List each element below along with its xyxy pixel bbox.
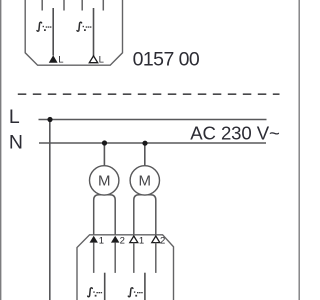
motor M1 [90, 166, 119, 195]
svg-text:1: 1 [99, 236, 104, 247]
terminal arrow-up 2 filled on U2 [111, 236, 119, 243]
svg-text:M: M [98, 172, 111, 189]
svg-text:AC 230 V~: AC 230 V~ [190, 123, 280, 144]
wire stub N to motor M2 [144, 143, 146, 167]
symbol integrator f2 in U1 [77, 22, 91, 31]
device U2 outline (control insert, cut off at bottom) [77, 235, 174, 300]
wire U2 from terminal 2 open [155, 243, 157, 273]
symbol integrator f2 in U2 [128, 288, 142, 297]
wire stub U1 terminal c [81, 0, 83, 11]
svg-text:0157 00: 0157 00 [133, 49, 200, 71]
junction node N / M1 [102, 140, 107, 145]
terminal arrow-up 1 open on U2 [130, 236, 138, 243]
motor M2 [130, 166, 159, 195]
wire U2 from terminal 2 filled [114, 243, 116, 273]
wire U2 from terminal 1 filled [93, 243, 95, 273]
terminal arrow-up 1 filled on U2 [90, 236, 98, 243]
terminal L open triangle on U1 [89, 56, 97, 63]
svg-text:M: M [139, 172, 152, 189]
wire U2 internal center 1 [104, 273, 106, 300]
svg-text:N: N [9, 131, 23, 153]
dashed separator line [18, 93, 280, 95]
wire U2 internal center 2 [144, 273, 146, 300]
wire U2 from terminal 1 open [133, 243, 135, 273]
svg-text:2: 2 [120, 236, 125, 247]
wire stub U1 terminal a [41, 0, 43, 11]
motor M2 winding bracket [134, 195, 156, 235]
wire stub U1 terminal d [102, 0, 104, 11]
terminal L filled triangle on U1 [49, 55, 58, 63]
right page border line [298, 0, 300, 300]
wire L drop to lower unit [49, 120, 51, 300]
device U1 outline (insert 0157 00, cut off at top) [25, 0, 122, 65]
svg-text:1: 1 [139, 236, 144, 247]
svg-text:L: L [9, 106, 20, 128]
wire U1 internal to terminal L (open) [93, 8, 95, 56]
symbol integrator f1 in U1 [37, 22, 51, 31]
left page border line [0, 0, 2, 300]
svg-text:L: L [99, 55, 104, 66]
wire U1 internal to terminal L (filled) [52, 8, 54, 56]
terminal arrow-up 2 open on U2 [152, 236, 160, 243]
junction node on L [47, 117, 52, 122]
wire stub N to motor M1 [103, 143, 105, 167]
motor M1 winding bracket [94, 195, 116, 235]
wire stub U1 terminal b [63, 0, 65, 11]
symbol integrator f1 in U2 [88, 288, 102, 297]
svg-text:2: 2 [160, 236, 165, 247]
junction node N / M2 [142, 141, 147, 146]
svg-text:L: L [58, 55, 63, 66]
wire N mains [39, 142, 266, 144]
wire L mains [39, 119, 267, 121]
